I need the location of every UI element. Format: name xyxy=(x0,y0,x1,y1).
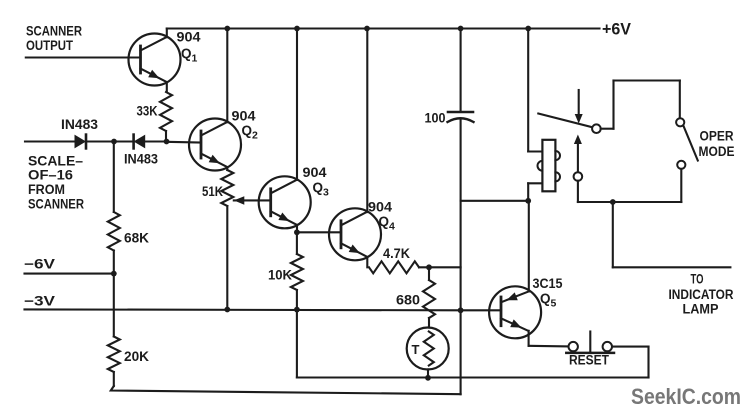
svg-text:RESET: RESET xyxy=(569,353,610,368)
svg-text:FROM: FROM xyxy=(28,182,65,197)
svg-text:100: 100 xyxy=(425,111,446,126)
svg-text:904: 904 xyxy=(368,200,393,215)
svg-text:IN483: IN483 xyxy=(61,117,98,132)
svg-text:IN483: IN483 xyxy=(124,152,158,167)
svg-text:20K: 20K xyxy=(124,349,149,364)
svg-text:10K: 10K xyxy=(268,268,292,283)
svg-text:MODE: MODE xyxy=(699,144,735,159)
svg-text:−6V: −6V xyxy=(24,257,55,272)
svg-text:SCANNER: SCANNER xyxy=(26,24,82,39)
svg-text:LAMP: LAMP xyxy=(683,302,719,317)
svg-text:904: 904 xyxy=(303,165,328,180)
svg-text:680: 680 xyxy=(396,293,420,308)
svg-text:904: 904 xyxy=(232,109,257,124)
svg-text:T: T xyxy=(412,342,420,357)
svg-text:−3V: −3V xyxy=(24,294,55,309)
svg-text:SCALE–: SCALE– xyxy=(28,154,84,169)
svg-text:TO: TO xyxy=(691,272,704,287)
svg-text:3C15: 3C15 xyxy=(533,276,563,291)
svg-text:51K: 51K xyxy=(202,184,223,199)
svg-text:904: 904 xyxy=(177,30,202,45)
svg-text:SCANNER: SCANNER xyxy=(28,197,84,212)
svg-text:OUTPUT: OUTPUT xyxy=(26,38,74,53)
svg-text:OF–16: OF–16 xyxy=(28,168,74,183)
svg-text:+6V: +6V xyxy=(602,20,632,39)
svg-text:33K: 33K xyxy=(137,104,158,119)
svg-text:INDICATOR: INDICATOR xyxy=(669,287,734,302)
svg-text:4.7K: 4.7K xyxy=(383,246,410,261)
svg-text:68K: 68K xyxy=(124,231,149,246)
svg-text:OPER: OPER xyxy=(700,129,734,144)
svg-text:SeekIC.com: SeekIC.com xyxy=(631,384,741,409)
